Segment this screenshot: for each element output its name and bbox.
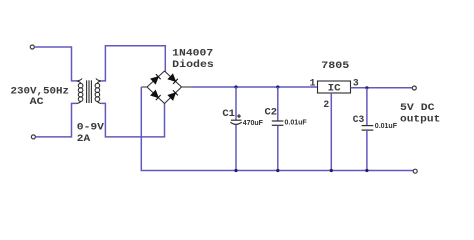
wire: C3 to ground rail: [366, 130, 368, 170]
wire: J2 to transformer primary bottom: [36, 103, 78, 136]
svg-text:230V,50Hz: 230V,50Hz: [11, 86, 70, 97]
wire: bridge minus down to ground rail: [141, 87, 415, 171]
wire: C2 to ground rail: [277, 125, 279, 170]
svg-text:Diodes: Diodes: [172, 59, 214, 70]
wire: transformer secondary top to bridge top: [101, 46, 165, 81]
wire: rail to C1: [235, 87, 237, 120]
node: junction C2 bottom: [276, 169, 279, 172]
svg-text:C3: C3: [353, 114, 365, 125]
node: junction C3 top: [365, 86, 368, 89]
core: [86, 80, 88, 103]
wire: transformer secondary bottom to bridge bottom: [101, 103, 164, 137]
wire: J1 to transformer primary top: [34, 47, 77, 81]
svg-text:output: output: [400, 114, 440, 125]
svg-text:2: 2: [323, 99, 329, 110]
svg-text:0.01uF: 0.01uF: [285, 119, 308, 126]
plus mark: [238, 114, 240, 118]
wire: output rail to C3: [366, 88, 368, 126]
terminal J2 (AC input bottom): [31, 135, 35, 139]
wire: IC pin 2 to ground rail: [330, 93, 332, 171]
diode D3 (bottom-left, L to B): [151, 91, 161, 101]
terminal J4 (output minus): [413, 169, 417, 173]
node: bridge minus stub: [141, 86, 147, 88]
diode D1 (top-left, L to T): [151, 74, 161, 84]
wire: bridge plus rail to IC pin 1: [192, 86, 318, 88]
IC U1 7805 regulator box: [318, 81, 351, 93]
node: junction C1 top: [234, 85, 237, 88]
node: junction C1 bottom: [234, 169, 237, 172]
primary winding: [77, 78, 82, 81]
wire: IC pin 3 to output terminal: [351, 87, 413, 89]
svg-text:1N4007: 1N4007: [172, 47, 213, 58]
capacitor C2 (0.01uF): [272, 87, 284, 171]
wire: C1 to ground rail: [235, 125, 237, 171]
svg-text:0-9V: 0-9V: [77, 122, 104, 133]
bridge rectifier diamond: [141, 71, 192, 104]
svg-text:1: 1: [310, 78, 316, 89]
diode D4 (bottom-right, B to R): [168, 90, 178, 100]
svg-text:3: 3: [353, 78, 359, 89]
transformer T1: [77, 78, 101, 103]
svg-text:AC: AC: [30, 96, 44, 107]
svg-text:2A: 2A: [77, 133, 91, 144]
secondary winding: [96, 78, 101, 81]
svg-text:IC: IC: [328, 83, 341, 94]
svg-text:0.01uF: 0.01uF: [375, 123, 398, 130]
node: junction C2 top: [276, 85, 279, 88]
terminal J3 (5V output plus): [412, 86, 416, 90]
terminal J1 (AC input top): [30, 45, 34, 49]
capacitor C1 (polarized 470uF): [230, 87, 241, 171]
svg-text:7805: 7805: [321, 60, 349, 71]
svg-text:C1: C1: [222, 108, 235, 119]
wire: rail to C2: [277, 87, 279, 121]
diode D2 (top-right, T to R): [168, 74, 178, 84]
capacitor C3 (0.01uF): [362, 88, 374, 171]
node: junction pin2 at ground: [330, 169, 333, 172]
svg-text:C2: C2: [265, 107, 278, 118]
svg-text:470uF: 470uF: [243, 120, 264, 127]
svg-text:5V DC: 5V DC: [400, 102, 435, 113]
node: bridge plus stub: [182, 86, 193, 88]
node: junction C3 bottom: [365, 169, 368, 172]
